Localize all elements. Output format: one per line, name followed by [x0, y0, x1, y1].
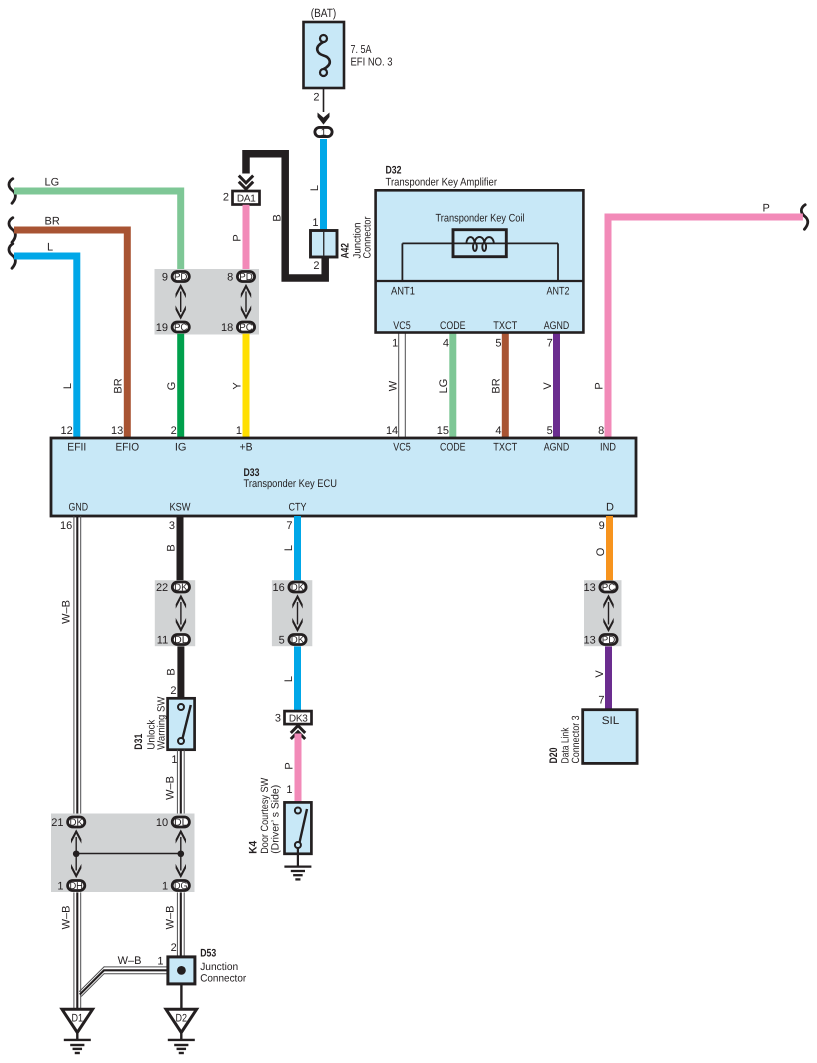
- wire G (green) PC(19) to ECU IG: [166, 334, 181, 438]
- connector DK pin 22: [156, 582, 190, 594]
- connector DK3 pin 3: [275, 711, 312, 724]
- svg-text:DG: DG: [174, 881, 188, 892]
- svg-text:CODE: CODE: [440, 320, 466, 332]
- svg-text:D31: D31: [133, 734, 145, 750]
- wire L ECU CTY to DK(16): [283, 516, 298, 581]
- svg-text:3: 3: [275, 712, 281, 724]
- svg-text:BR: BR: [491, 378, 503, 393]
- svg-text:11: 11: [157, 635, 168, 647]
- off-page wire BR (brown): [9, 216, 127, 439]
- svg-text:22: 22: [156, 582, 168, 594]
- svg-text:CTY: CTY: [289, 502, 308, 514]
- svg-text:IG: IG: [175, 442, 187, 454]
- svg-text:4: 4: [495, 425, 501, 437]
- svg-text:Connector: Connector: [362, 216, 374, 258]
- arrow DK16-DK5: [292, 594, 302, 608]
- svg-text:8: 8: [598, 425, 604, 437]
- wire B (black) A42 pin 2 to DA1: [246, 154, 325, 278]
- svg-text:18: 18: [221, 322, 233, 334]
- connector PC pin 13: [584, 582, 618, 594]
- wire B ECU KSW to DK(22): [165, 516, 180, 581]
- wire V (violet) PD(13) to D20 SIL: [594, 646, 609, 709]
- svg-text:PD: PD: [174, 272, 188, 283]
- junction block DK/DK (gray): [272, 580, 312, 646]
- svg-text:TXCT: TXCT: [493, 442, 517, 454]
- svg-text:IND: IND: [600, 442, 616, 454]
- svg-text:D53: D53: [200, 948, 216, 960]
- connector DL pin 10: [156, 817, 190, 829]
- svg-text:13: 13: [111, 425, 123, 437]
- svg-text:B: B: [272, 214, 284, 221]
- svg-text:PC: PC: [602, 583, 616, 594]
- wire LG D32 CODE to ECU CODE: [437, 332, 453, 438]
- svg-text:W–B: W–B: [118, 955, 142, 967]
- svg-text:2: 2: [313, 92, 319, 104]
- connector DA1 pin 2: [223, 191, 260, 205]
- ECU D33 Transponder Key ECU box: [51, 438, 636, 516]
- fuse (BAT) 7.5A EFI NO.3: [304, 6, 393, 88]
- svg-text:O: O: [595, 547, 607, 556]
- connector DG pin 1: [162, 881, 189, 893]
- svg-text:Y: Y: [231, 382, 243, 390]
- svg-text:W: W: [387, 380, 399, 391]
- svg-text:Connector: Connector: [200, 973, 246, 985]
- svg-text:DK3: DK3: [289, 713, 308, 724]
- svg-text:16: 16: [273, 582, 285, 594]
- arrow into node 1: [318, 113, 330, 125]
- svg-text:B: B: [165, 668, 177, 675]
- svg-text:D32: D32: [386, 165, 402, 177]
- svg-text:5: 5: [279, 635, 285, 647]
- svg-text:Connector 3: Connector 3: [570, 715, 582, 763]
- svg-text:L: L: [47, 242, 53, 254]
- svg-text:P: P: [231, 234, 243, 241]
- wire O (orange) ECU D to PC(13): [595, 516, 610, 581]
- connector PD pin 9: [162, 272, 189, 284]
- svg-text:CODE: CODE: [440, 442, 466, 454]
- amplifier D32 box: [376, 165, 584, 333]
- svg-text:VC5: VC5: [393, 442, 411, 454]
- crossover line with junctions: [76, 853, 181, 855]
- svg-text:Warning SW: Warning SW: [156, 697, 168, 750]
- svg-text:5: 5: [547, 425, 553, 437]
- off-page wire LG (light green): [9, 177, 181, 270]
- svg-text:Junction: Junction: [200, 961, 238, 973]
- svg-text:EFI NO. 3: EFI NO. 3: [351, 57, 393, 69]
- svg-text:2: 2: [171, 425, 177, 437]
- svg-text:16: 16: [60, 520, 72, 532]
- junction connector D53: [168, 948, 247, 985]
- svg-text:L: L: [309, 185, 321, 191]
- svg-text:PC: PC: [239, 323, 253, 334]
- svg-text:L: L: [283, 545, 295, 551]
- arrow out of DK3: [291, 726, 305, 733]
- ground D1: [62, 1009, 93, 1053]
- wire L DK(5) to DK3: [283, 646, 298, 711]
- svg-text:13: 13: [584, 582, 596, 594]
- junction block DK/DL (gray): [155, 580, 195, 646]
- svg-text:PD: PD: [239, 272, 253, 283]
- connector DK pin 16: [273, 582, 307, 594]
- svg-text:AGND: AGND: [544, 442, 570, 454]
- connector PD pin 8: [227, 272, 254, 284]
- svg-text:EFIO: EFIO: [116, 442, 140, 454]
- switch D31 Unlock Warning SW: [133, 697, 195, 766]
- svg-text:3: 3: [169, 520, 175, 532]
- svg-text:7: 7: [547, 338, 553, 350]
- svg-text:G: G: [166, 382, 178, 391]
- svg-text:19: 19: [156, 322, 168, 334]
- svg-text:8: 8: [227, 272, 233, 284]
- wire W-B DG(1) to D53 pin 2: [165, 892, 185, 957]
- svg-text:BR: BR: [113, 378, 125, 393]
- svg-text:P: P: [593, 382, 605, 389]
- svg-text:D1: D1: [72, 1012, 84, 1024]
- svg-text:(BAT): (BAT): [311, 6, 337, 20]
- transponder key coil: [402, 213, 558, 282]
- ECU top pin numbers: [61, 425, 242, 437]
- svg-text:P: P: [283, 762, 295, 769]
- wire fuse pin 2 to node 1: [313, 88, 323, 112]
- junction block PD/PC (gray): [155, 269, 260, 335]
- svg-text:EFII: EFII: [67, 442, 86, 454]
- svg-text:1: 1: [321, 128, 327, 139]
- svg-text:KSW: KSW: [170, 502, 192, 514]
- svg-text:Transponder Key Amplifier: Transponder Key Amplifier: [386, 177, 498, 189]
- off-page wire P (pink) to ECU IND: [593, 203, 808, 439]
- svg-text:+B: +B: [240, 442, 253, 454]
- svg-text:12: 12: [61, 425, 73, 437]
- svg-text:B: B: [165, 544, 177, 551]
- svg-text:V: V: [542, 382, 554, 390]
- svg-text:1: 1: [312, 217, 318, 229]
- ground D2: [166, 1009, 197, 1053]
- connector PC pin 18: [221, 322, 255, 334]
- svg-text:BR: BR: [45, 216, 60, 228]
- D32 pin labels: [391, 286, 570, 333]
- ECU bottom pin numbers: [60, 520, 605, 532]
- svg-text:A42: A42: [340, 243, 352, 259]
- svg-text:1: 1: [57, 881, 63, 893]
- node 1 (circled): [315, 127, 332, 138]
- svg-text:LG: LG: [438, 379, 450, 394]
- svg-text:L: L: [283, 676, 295, 682]
- svg-text:1: 1: [286, 784, 292, 796]
- wire W-B ECU GND to DK(21): [61, 516, 81, 816]
- svg-text:(Driver’ s Side): (Driver’ s Side): [269, 785, 281, 854]
- svg-text:TXCT: TXCT: [493, 320, 517, 332]
- connector DK pin 5: [279, 635, 306, 647]
- svg-text:PC: PC: [174, 323, 188, 334]
- svg-text:AGND: AGND: [544, 320, 570, 332]
- svg-text:DA1: DA1: [237, 193, 256, 204]
- svg-text:1: 1: [157, 956, 163, 968]
- junction connector A42: [311, 216, 374, 258]
- svg-text:4: 4: [443, 338, 449, 350]
- svg-text:5: 5: [495, 338, 501, 350]
- wire D53 to ground D2: [180, 984, 182, 1009]
- arrow into DA1: [239, 176, 253, 183]
- svg-text:DK: DK: [174, 583, 188, 594]
- svg-text:14: 14: [386, 425, 398, 437]
- wire W-B D31 pin 1 to DL(10): [165, 750, 185, 816]
- connector DK pin 21: [51, 817, 85, 829]
- svg-text:SIL: SIL: [602, 715, 620, 727]
- wire P (pink) DK3 to K4 pin 1: [283, 734, 298, 803]
- wire P (pink) DA1 to PD(8): [231, 205, 246, 270]
- wire Y (yellow) PC(18) to ECU +B: [231, 334, 246, 438]
- svg-text:ANT1: ANT1: [391, 286, 415, 298]
- svg-text:13: 13: [584, 635, 596, 647]
- svg-text:VC5: VC5: [393, 320, 411, 332]
- connector PD pin 13: [584, 635, 618, 647]
- svg-text:W–B: W–B: [61, 906, 73, 930]
- wire W-B D53 pin 1 branch to D1 wire: [79, 955, 168, 997]
- wire W-B DH(1) to ground D1: [61, 892, 81, 1008]
- connector DH pin 1: [57, 881, 84, 893]
- svg-text:1: 1: [236, 425, 242, 437]
- svg-text:2: 2: [170, 685, 176, 697]
- svg-text:W–B: W–B: [165, 776, 177, 800]
- svg-text:LG: LG: [45, 177, 60, 189]
- arrow DK22-DL11: [176, 594, 186, 608]
- junction block DK/DH DL/DG (gray): [51, 814, 195, 893]
- switch K4 Door Courtesy SW (Driver's Side): [248, 778, 312, 854]
- connector DL pin 11: [157, 635, 190, 647]
- svg-text:DK: DK: [69, 818, 83, 829]
- arrow PD8-PC18: [241, 284, 251, 298]
- svg-text:D2: D2: [176, 1012, 188, 1024]
- svg-text:DK: DK: [291, 583, 305, 594]
- svg-text:7: 7: [598, 695, 604, 707]
- svg-text:10: 10: [156, 817, 168, 829]
- svg-text:9: 9: [162, 272, 168, 284]
- wire B DL(11) to D31 pin 2: [165, 646, 181, 698]
- arrow PD9-PC19: [176, 284, 186, 298]
- wire V (violet) D32 AGND to ECU AGND: [542, 332, 557, 438]
- svg-text:2: 2: [223, 192, 229, 204]
- svg-text:9: 9: [599, 520, 605, 532]
- arrow DK21-DH1: [71, 829, 81, 843]
- wire W (white) D32 VC5 to ECU VC5: [386, 332, 405, 438]
- svg-text:D: D: [606, 502, 614, 514]
- svg-text:L: L: [62, 383, 74, 389]
- svg-text:15: 15: [437, 425, 449, 437]
- connector PC pin 19: [156, 322, 190, 334]
- svg-text:21: 21: [51, 817, 63, 829]
- data link connector D20: [548, 710, 637, 764]
- svg-text:Transponder Key ECU: Transponder Key ECU: [244, 478, 338, 490]
- arrow PC13-PD13: [603, 594, 613, 608]
- svg-text:ANT2: ANT2: [547, 286, 570, 298]
- junction block PC/PD (gray): [584, 580, 622, 646]
- svg-text:2: 2: [313, 260, 319, 272]
- K4 ground: [284, 848, 311, 879]
- svg-text:V: V: [594, 670, 606, 678]
- svg-text:D20: D20: [548, 748, 560, 764]
- wire L (blue) node 1 to A42 pin 1: [309, 139, 324, 231]
- svg-text:W–B: W–B: [61, 600, 73, 624]
- svg-text:7. 5A: 7. 5A: [351, 44, 372, 56]
- arrow DL10-DG1: [176, 829, 186, 843]
- svg-text:DH: DH: [69, 881, 83, 892]
- off-page wire L (blue): [9, 242, 77, 439]
- svg-text:PD: PD: [602, 635, 616, 646]
- svg-text:DL: DL: [174, 818, 188, 829]
- svg-text:DL: DL: [174, 635, 188, 646]
- svg-text:GND: GND: [69, 502, 89, 514]
- svg-text:1: 1: [392, 338, 398, 350]
- svg-text:1: 1: [162, 881, 168, 893]
- svg-text:7: 7: [286, 520, 292, 532]
- svg-text:Transponder Key Coil: Transponder Key Coil: [436, 213, 525, 225]
- svg-text:K4: K4: [248, 840, 260, 854]
- svg-text:W–B: W–B: [165, 906, 177, 930]
- wire BR D32 TXCT to ECU TXCT: [491, 332, 506, 438]
- svg-text:2: 2: [171, 942, 177, 954]
- svg-text:P: P: [763, 203, 770, 215]
- svg-text:DK: DK: [291, 635, 305, 646]
- svg-text:1: 1: [171, 754, 177, 766]
